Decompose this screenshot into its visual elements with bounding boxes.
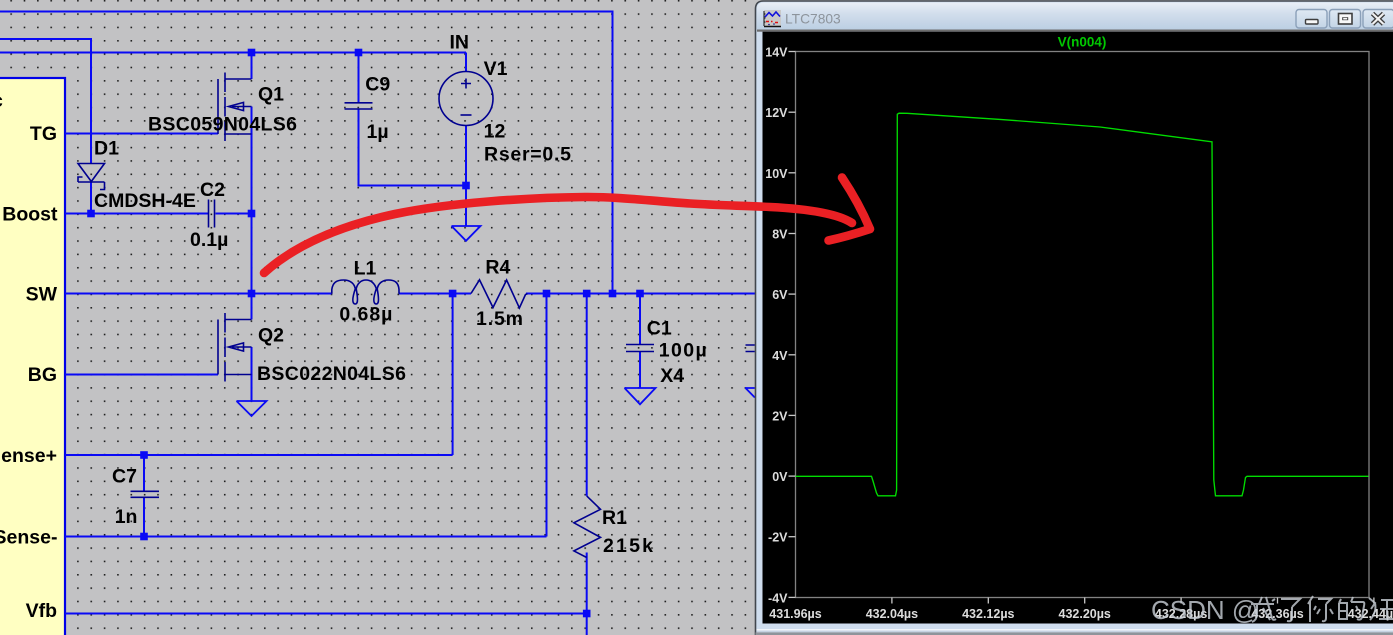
svg-text:X4: X4: [660, 365, 684, 387]
wire D1 cathode to Boost: [90, 182, 92, 214]
wire SW: [65, 293, 332, 295]
svg-text:Vfb: Vfb: [26, 600, 58, 622]
wire Q2 drain: [251, 294, 253, 320]
wire TG: [65, 133, 218, 135]
junction C7 top / Sense+: [140, 451, 148, 459]
wire R1 bottom lead: [586, 553, 588, 635]
wire R4 right to output rail: [526, 293, 755, 295]
wire Q1 drain: [251, 53, 253, 80]
svg-text:IN: IN: [450, 32, 470, 54]
svg-text:-4V: -4V: [768, 591, 788, 605]
wire C9 top lead: [358, 53, 360, 103]
ground under C1: [625, 388, 656, 404]
ground under Q2: [237, 401, 267, 416]
svg-text:C7: C7: [112, 466, 137, 488]
wire sense+ dropper: [452, 294, 454, 456]
wire R1 top lead: [586, 294, 588, 496]
wire Q1 source down to SW: [251, 107, 253, 294]
wire V1 top lead: [465, 53, 467, 72]
wire C9 bottom to V1 minus: [359, 110, 467, 186]
svg-text:0V: 0V: [772, 470, 788, 484]
plot border: [796, 52, 1370, 598]
svg-text:432.04µs: 432.04µs: [866, 607, 918, 621]
svg-text:L1: L1: [354, 258, 377, 280]
char 狂 (clipped): [1369, 598, 1393, 620]
svg-text:1µ: 1µ: [367, 121, 389, 143]
wire C2 right to Q1 source node: [216, 213, 252, 215]
wire V1 to ground: [465, 186, 467, 227]
wire V1 bottom lead: [465, 126, 467, 186]
wire Sense-: [65, 536, 547, 538]
title bar: [757, 3, 1393, 30]
wire top rail: [0, 12, 613, 294]
svg-text:0.1µ: 0.1µ: [190, 229, 228, 251]
svg-text:10V: 10V: [765, 167, 788, 181]
svg-text:BSC059N04LS6: BSC059N04LS6: [148, 114, 297, 136]
svg-text:BSC022N04LS6: BSC022N04LS6: [257, 363, 406, 385]
capacitor C2: [209, 200, 215, 228]
capacitor C7: [131, 491, 160, 497]
junction C7 bottom / Sense-: [140, 533, 148, 541]
svg-text:BG: BG: [28, 364, 57, 386]
resistor R1: [574, 496, 601, 558]
wire C7 leads: [143, 455, 145, 537]
waveform window: [756, 1, 1393, 635]
wire Sense+: [65, 454, 453, 456]
junction Q1 drain / VIN rail: [248, 49, 256, 57]
plot pane: [763, 32, 1393, 624]
svg-text:C2: C2: [200, 179, 225, 201]
transistor Q2: [218, 313, 252, 382]
junction C2 right / Q1 source: [248, 210, 256, 218]
svg-text:LTC7803: LTC7803: [785, 12, 841, 27]
char 戒: [1251, 597, 1276, 622]
wire sense- dropper: [546, 294, 548, 537]
svg-text:1n: 1n: [115, 506, 138, 528]
svg-text:CSDN @: CSDN @: [1151, 595, 1258, 625]
junction L1-R4 / Sense+: [449, 290, 457, 298]
ground under V1: [452, 226, 481, 241]
wire Vfb: [65, 613, 587, 615]
capacitor C1: [626, 345, 654, 352]
inductor L1: [332, 280, 399, 304]
svg-text:12: 12: [484, 121, 506, 143]
title icon: [764, 10, 781, 27]
junction C1 top / output rail: [636, 290, 644, 298]
junction V1 minus / C9 bottom: [462, 182, 470, 190]
wire BG: [65, 374, 218, 376]
svg-text:Q2: Q2: [258, 325, 284, 347]
window frame: [756, 1, 1393, 635]
junction C9 top / VIN rail: [355, 49, 363, 57]
char 的: [1339, 597, 1364, 620]
maximize button: [1330, 10, 1361, 29]
svg-text:2V: 2V: [772, 409, 788, 423]
svg-text:6V: 6V: [772, 288, 788, 302]
junction R1 top / output rail: [583, 290, 591, 298]
IC block U1 (LTC7803): [0, 78, 65, 635]
junction node SW: [248, 290, 256, 298]
svg-text:431.96µs: 431.96µs: [769, 607, 821, 621]
svg-text:Rser=0.5: Rser=0.5: [484, 144, 571, 166]
junction R4 right / Sense-: [543, 290, 551, 298]
svg-text:100µ: 100µ: [659, 340, 707, 362]
svg-text:D1: D1: [94, 138, 119, 160]
y axis labels: [765, 46, 788, 606]
resistor R4: [471, 280, 528, 308]
svg-text:14V: 14V: [765, 46, 788, 60]
watermark CSDN: [1151, 595, 1393, 625]
svg-text:CMDSH-4E: CMDSH-4E: [94, 190, 196, 212]
svg-text:ense+: ense+: [1, 445, 57, 467]
svg-text:TG: TG: [30, 123, 57, 145]
svg-text:432.12µs: 432.12µs: [962, 607, 1014, 621]
y axis ticks: [789, 52, 796, 598]
wire VIN rail: [0, 52, 466, 54]
wire Q2 source to ground: [251, 347, 253, 401]
junction R1 bottom / Vfb: [583, 610, 591, 618]
svg-text:V(n004): V(n004): [1058, 35, 1107, 50]
svg-text:SW: SW: [26, 284, 58, 306]
wire Boost: [65, 213, 208, 215]
svg-text:1.5m: 1.5m: [476, 308, 523, 330]
wire C1 top lead: [639, 294, 641, 345]
svg-text:Boost: Boost: [2, 204, 58, 226]
svg-text:V1: V1: [484, 58, 508, 80]
waveform trace V(n004): [796, 113, 1369, 496]
voltage source V1: [439, 72, 493, 126]
transistor Q1: [218, 73, 252, 142]
svg-text:R4: R4: [485, 256, 510, 278]
minimize button: [1296, 10, 1327, 29]
wire L1 to R4: [399, 293, 471, 295]
ground at right edge (partial): [745, 388, 755, 398]
junction D1 cathode / Boost: [87, 210, 95, 218]
svg-text:c: c: [0, 90, 3, 112]
svg-text:-2V: -2V: [768, 531, 788, 545]
svg-text:Sense-: Sense-: [0, 527, 58, 549]
close button: [1363, 10, 1393, 29]
svg-text:R1: R1: [602, 507, 627, 529]
svg-text:432.36µs: 432.36µs: [1251, 607, 1303, 621]
svg-text:0.68µ: 0.68µ: [339, 304, 392, 326]
wire to D1 anode: [0, 39, 91, 164]
x axis labels: [769, 607, 1393, 621]
char 你: [1308, 596, 1333, 622]
schematic labels: [0, 32, 707, 623]
x axis ticks: [892, 598, 1374, 604]
svg-text:C1: C1: [647, 317, 672, 339]
wire C1 bottom lead: [639, 352, 641, 388]
svg-text:432.20µs: 432.20µs: [1059, 607, 1111, 621]
ground symbols: [237, 226, 755, 416]
capacitor C-edge (partial): [746, 345, 755, 352]
junction top rail / output rail: [609, 290, 617, 298]
capacitor C9: [345, 103, 373, 109]
svg-text:C9: C9: [365, 73, 390, 95]
char 了: [1281, 599, 1300, 621]
red annotation arrow: [264, 178, 870, 274]
svg-text:12V: 12V: [765, 106, 788, 120]
svg-text:Q1: Q1: [258, 84, 284, 106]
svg-text:4V: 4V: [772, 349, 788, 363]
svg-text:8V: 8V: [772, 228, 788, 242]
diode D1: [78, 164, 105, 190]
